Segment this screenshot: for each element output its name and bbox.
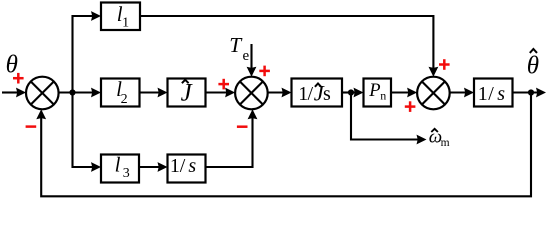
svg-text:n: n <box>380 88 386 102</box>
svg-text:θ: θ <box>527 53 539 80</box>
svg-text:/: / <box>308 83 314 105</box>
svg-text:l: l <box>115 152 121 176</box>
svg-text:s: s <box>188 155 196 177</box>
svg-text:s: s <box>497 83 505 105</box>
svg-text:2: 2 <box>121 92 128 107</box>
svg-text:T: T <box>229 33 243 57</box>
svg-text:3: 3 <box>123 166 130 181</box>
svg-text:e: e <box>243 48 250 64</box>
svg-text:/: / <box>180 155 186 177</box>
svg-text:θ: θ <box>6 51 18 78</box>
svg-text:/: / <box>488 83 494 105</box>
svg-text:1: 1 <box>478 83 488 105</box>
svg-text:m: m <box>441 137 450 149</box>
svg-text:1: 1 <box>170 155 180 177</box>
svg-text:1: 1 <box>122 15 129 30</box>
svg-text:s: s <box>323 83 331 105</box>
svg-text:P: P <box>368 81 380 101</box>
